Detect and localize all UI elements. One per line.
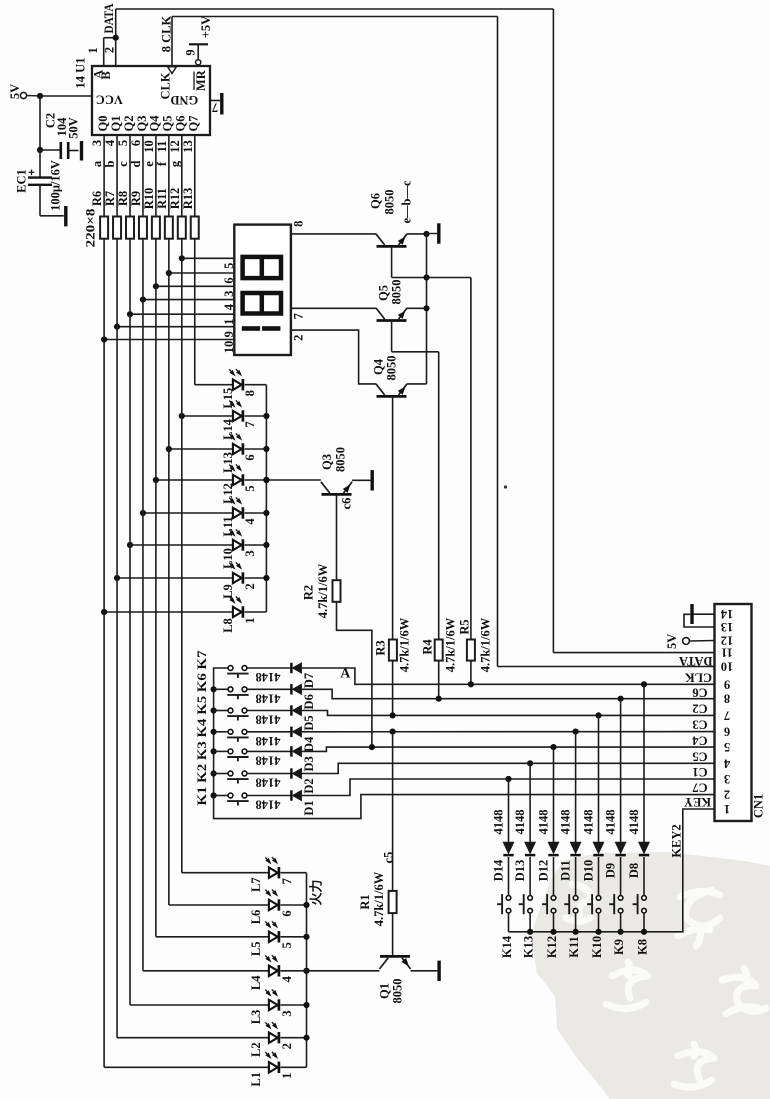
label K9 [612,939,626,955]
label L9 [221,584,235,599]
wire column c corner to L3 [130,1004,269,1006]
junction key bus [211,707,217,713]
svg-text:2: 2 [103,47,117,53]
label Q1 8050 [391,979,405,1004]
junction VCC node [37,93,43,99]
svg-text:10: 10 [721,660,734,674]
wire segment column g to display [182,257,235,259]
svg-text:KEY: KEY [684,795,711,809]
svg-text:Q5: Q5 [161,116,175,132]
terminal 5V circle [20,92,37,98]
label Q5 8050 [390,280,404,305]
svg-text:5: 5 [243,485,257,491]
wire key K14 to bus [508,913,510,932]
label L12 [221,483,235,504]
wire D1 row step [301,779,714,796]
label R1 [358,894,372,909]
svg-text:L7: L7 [249,877,263,892]
svg-text:L4: L4 [249,975,263,990]
label R10 [142,188,156,210]
junction LED bus Q3 [263,477,269,483]
wire Q5 emitter [407,307,426,309]
svg-text:3: 3 [280,1010,294,1016]
LED pin number 7 [280,878,294,884]
wire display pin7 to Q5 [291,307,376,309]
svg-text:R11: R11 [155,188,169,209]
push-button K7 [227,666,248,678]
svg-text:VCC: VCC [96,93,123,107]
junction R3 line to D4 row [390,729,396,735]
junction K13 column to row [527,760,533,766]
label c6 [340,498,354,510]
wire D14 to key [508,857,510,896]
junction bottom key bus [550,929,556,935]
label KEY [684,795,711,809]
junction bottom LED bus [303,902,309,908]
wire column g vertical [181,239,183,873]
wire bus to key K1 [214,795,229,797]
LED pin number 3 [280,1010,294,1016]
wire D13 to key [529,857,531,896]
wire U1 Q6 to resistor [181,135,183,217]
label c5 [382,852,396,864]
junction bottom key bus [641,929,647,935]
svg-text:50V: 50V [67,117,81,139]
pin number 2 [103,47,117,53]
svg-text:1: 1 [280,1073,294,1079]
wire column f corner to L6 [169,904,269,906]
junction key bus [211,729,217,735]
diode D13 [525,842,535,855]
svg-text:K13: K13 [522,936,536,958]
label R2 value [316,563,330,618]
diode D11 [570,842,580,855]
LED L15 [229,369,243,390]
svg-text:R9: R9 [129,191,143,206]
junction K11 column to row [573,729,579,735]
svg-text:7: 7 [212,101,218,115]
svg-text:D10: D10 [582,860,596,882]
wire key K1 to diode D1 [247,795,292,797]
U1 pin 1 wire [103,38,105,66]
wire key K2 to diode D2 [247,773,292,775]
push-button K2 [227,771,248,783]
svg-text:8: 8 [243,390,257,396]
wire Q6 base down [391,246,393,277]
junction LED bus Q1 [303,968,309,974]
ground EC1 [64,206,67,226]
display digit 2 [243,293,281,314]
label L15 [221,388,235,409]
diode D1 [291,790,301,800]
connector CN1 body [715,604,752,821]
CN1 pin number 2 [724,788,730,802]
label Q4 8050 [385,356,399,381]
wire column f feed to L13 [169,448,233,450]
svg-text:6: 6 [280,910,294,916]
label L8 [221,618,235,633]
resistor R6 [100,217,108,239]
junction column d LED feed [140,510,146,516]
junction emitter bus crossing [423,274,429,280]
svg-text:D4: D4 [302,736,316,752]
wire column d feed to L11 [143,512,233,514]
svg-text:4.7k/1/6W: 4.7k/1/6W [443,617,457,672]
pin number 5 [116,140,130,146]
label Q3 8050 [333,447,347,472]
svg-text:Q5: Q5 [377,285,391,301]
svg-text:g: g [168,160,182,167]
U1 label CLK [159,72,173,99]
CN1 pin number 9 [724,677,730,691]
wire U1 Q3 to resistor [142,135,144,217]
svg-text:4148: 4148 [604,810,618,835]
capacitor EC1 electrolytic [28,170,52,185]
resistor R8 [126,217,134,239]
wire L11 cathode [245,512,267,514]
U1 label Q6 [174,116,188,132]
diode D2 [291,768,301,778]
svg-text:KEY2: KEY2 [670,824,684,857]
svg-text:CN1: CN1 [752,794,766,818]
label 4148 D14 [492,810,506,835]
CN1 pin number 8 [724,692,730,706]
push-button K4 [227,729,248,741]
svg-text:R12: R12 [168,188,182,210]
wire key K8 to bus [643,913,645,932]
svg-text:9: 9 [724,677,730,691]
wire key bus left [214,668,715,819]
wire bus to key K6 [214,688,229,690]
label D9 [604,863,618,878]
svg-text:4.7k/1/6W: 4.7k/1/6W [316,563,330,618]
svg-text:e: e [142,161,156,167]
label R11 [155,188,169,209]
push-button K14 [497,894,511,914]
svg-text:4148: 4148 [492,810,506,835]
svg-text:D9: D9 [604,863,618,878]
svg-text:R5: R5 [458,619,472,634]
wire L8 cathode [245,611,267,613]
svg-text:5: 5 [724,740,730,754]
junction LED bus [263,413,269,419]
display pin label 3 [222,291,236,297]
junction column b display feed [114,324,120,330]
label 4148 D13 [513,810,527,835]
LED pin number 1 [243,617,257,623]
wire column K14 vertical [508,779,510,842]
svg-text:3: 3 [724,772,730,786]
ground C2 [80,141,83,161]
CN1 pin number 3 [724,772,730,786]
ground Q3 [352,470,372,490]
ground U1 pin7 [220,93,223,115]
svg-text:c6: c6 [340,498,354,510]
label R13 [181,188,195,210]
wire L5 cathode [281,936,307,938]
wire segment column e to display [156,285,234,287]
LED L10 [229,529,243,550]
ground Q6 [427,223,439,243]
label 8 CLK [160,15,174,52]
svg-text:K9: K9 [612,939,626,955]
LED pin number 1 [280,1073,294,1079]
junction R3 to row [390,712,396,718]
U1 label GND [170,93,198,107]
resistor R11 [165,217,173,239]
resistor R3 [389,640,397,661]
svg-text:Q6: Q6 [369,193,383,209]
svg-text:K8: K8 [636,939,650,955]
svg-text:7: 7 [292,313,306,319]
svg-text:2: 2 [292,335,306,341]
svg-text:L5: L5 [249,942,263,957]
svg-text:2: 2 [280,1043,294,1049]
svg-text:4148: 4148 [256,798,281,812]
svg-text:4: 4 [103,139,117,146]
svg-text:3: 3 [90,140,104,146]
U1 label Q3 [135,116,149,132]
svg-text:K14: K14 [500,935,514,958]
wire D12 to key [553,857,555,896]
svg-text:Q0: Q0 [96,116,110,132]
label R4 value [443,617,457,672]
wire U1 Q0 to resistor [103,135,105,217]
display pin label 9 [222,331,236,337]
svg-text:火力: 火力 [308,879,323,905]
svg-text:8050: 8050 [383,190,397,215]
LED L14 [229,400,243,421]
LED pin number 3 [243,550,257,556]
wire column g corner to L7 [182,872,269,874]
junction caps node [37,147,43,153]
label R4 [421,639,435,655]
junction pin1/pin2 DATA [113,35,119,41]
junction key bus [211,748,217,754]
wire Q1 emitter [411,970,436,972]
svg-text:13: 13 [181,140,195,153]
label K11 [567,936,581,958]
junction bottom LED bus [303,968,309,974]
transistor Q4 [376,384,407,397]
CN1 pin number 4 [723,756,730,770]
7-segment display body [234,225,291,355]
wire R4 column upper [438,352,440,640]
svg-text:Q4: Q4 [372,358,386,375]
label 50V [67,117,81,139]
label D8 [627,863,641,878]
label L7 [249,877,263,892]
LED pin number 4 [243,518,257,525]
svg-text:4148: 4148 [256,753,281,767]
label 4148 D4 [256,734,281,748]
label 100u/16V [49,160,63,211]
wire D2 row step [301,763,714,773]
wire D4 row to CN1 [301,731,714,733]
label 14 U1 [74,58,88,89]
junction column f display feed [166,270,172,276]
junction key bus [211,686,217,692]
CN1 pin number 6 [724,725,730,739]
junction LED bus [263,446,269,452]
transistor Q6 [376,234,407,247]
junction bottom LED bus [303,934,309,940]
label L6 [249,910,263,925]
svg-text:2: 2 [724,788,730,802]
svg-text:d: d [129,160,143,167]
svg-text:D2: D2 [302,778,316,793]
junction column b LED feed [114,575,120,581]
segment label f [155,161,169,166]
push-button K11 [564,894,578,914]
svg-text:D6: D6 [302,694,316,709]
wire LED bus to Q3 collector [266,479,320,481]
U1 label Q7 [187,116,201,132]
svg-text:Q2: Q2 [122,116,136,132]
svg-text:C5: C5 [692,749,707,763]
label Q6 8050 [383,190,397,215]
svg-text:EC1: EC1 [15,169,29,193]
wire column K13 vertical [529,763,531,842]
LED L5 [265,921,279,942]
wire column b corner to L2 [117,1037,269,1039]
wire column K12 vertical [553,747,555,842]
svg-text:12: 12 [168,140,182,153]
label D2 [302,778,316,793]
resistor R2 [333,580,341,602]
wire L3 cathode [281,1004,307,1006]
wire D11 to key [575,857,577,896]
svg-text:DATA: DATA [102,4,116,34]
svg-text:L8: L8 [221,618,235,633]
pin number 10 [142,140,156,153]
wire column d vertical [142,239,144,971]
svg-text:D11: D11 [559,860,573,881]
wire R5 bottom [470,661,472,685]
svg-text:C3: C3 [692,718,707,732]
wire L6 cathode [281,904,307,906]
wire L4 cathode [281,970,307,972]
CN1 pin number 13 [721,620,734,634]
wire DATA to CN1 pin 11 [553,652,714,654]
label K1..K7 column [195,651,209,806]
resistor R1 [389,891,397,913]
junction column e display feed [153,283,159,289]
svg-text:CLK: CLK [685,671,712,685]
junction column f LED feed [166,446,172,452]
svg-text:1: 1 [243,617,257,623]
ground Q1 [411,961,440,981]
display pin label 1 [222,319,236,325]
push-button K13 [519,894,533,914]
LED pin number 2 [243,583,257,589]
svg-text:Q3: Q3 [320,454,334,470]
svg-text:GND: GND [170,93,198,107]
svg-text:12: 12 [721,634,734,648]
junction K12 column to row [550,744,556,750]
wire U1 Q5 to resistor [168,135,170,217]
label Q6 [369,193,383,209]
wire L15 cathode [245,384,267,386]
CN1 pin number 14 [720,607,733,621]
label CLK CN1 [685,671,712,685]
U1 label Q4 [148,115,162,132]
svg-text:8050: 8050 [390,280,404,305]
label R2 [302,585,316,600]
label D10 [582,860,596,882]
svg-text:DATA: DATA [679,654,713,668]
svg-text:Q3: Q3 [135,116,149,132]
wire DATA right drop [552,9,554,653]
label K12 [545,936,559,958]
transistor Q5 [376,308,407,321]
junction LED bus [263,575,269,581]
svg-text:4.7k/1/6W: 4.7k/1/6W [397,617,411,672]
display pin label 4 [222,303,236,310]
wire L12 cathode [245,479,267,481]
diode D12 [548,842,558,855]
svg-text:L3: L3 [249,1010,263,1025]
svg-text:4148: 4148 [256,670,281,684]
wire VCC [40,95,92,97]
svg-text:Q4: Q4 [148,115,162,132]
CN1 pin 14 wire [693,613,714,615]
U1 pin 2 wire [104,38,116,66]
transistor Q1 [379,956,410,969]
svg-text:L1: L1 [249,1072,263,1087]
svg-text:4148: 4148 [537,810,551,835]
wire column a corner to L1 [104,1066,269,1068]
svg-text:L6: L6 [249,910,263,925]
label 4148 D9 [604,810,618,835]
label 4148 D12 [537,810,551,835]
U1 label VCC [96,93,123,107]
label 4148 D5 [256,713,281,727]
stray mark [504,485,507,488]
junction column g LED feed [179,413,185,419]
junction Q5 emitter [423,305,429,311]
pin number 7 [212,101,218,115]
svg-text:1: 1 [724,802,730,816]
wire DATA top run [116,8,554,10]
wire to EC1 [39,150,41,177]
svg-text:R7: R7 [103,191,117,206]
svg-text:R8: R8 [116,191,130,206]
junction bottom LED bus [303,1035,309,1041]
wire EC1 to ground [40,185,64,216]
svg-text:+5V: +5V [199,16,213,38]
push-button K8 [633,894,647,914]
svg-text:K1 K2 K3 K4 K5 K6 K7: K1 K2 K3 K4 K5 K6 K7 [195,651,209,806]
pin number 1 [86,47,100,53]
label K8 [636,939,650,955]
clock input triangle U1 [168,67,177,74]
label R3 [374,640,388,655]
LED L11 [229,497,243,518]
U1 label Q1 [109,116,123,132]
svg-text:11: 11 [721,646,733,660]
pin number 11 [155,141,169,153]
wire LED common bus bottom block [306,873,308,1068]
label R7 [103,191,117,206]
svg-text:4148: 4148 [513,810,527,835]
label node A [340,667,351,682]
svg-text:4148: 4148 [582,810,596,835]
label 4148 D7 [256,670,281,684]
diode D3 [291,746,301,756]
CN1 pin number 5 [724,740,730,754]
label R5 [458,619,472,634]
